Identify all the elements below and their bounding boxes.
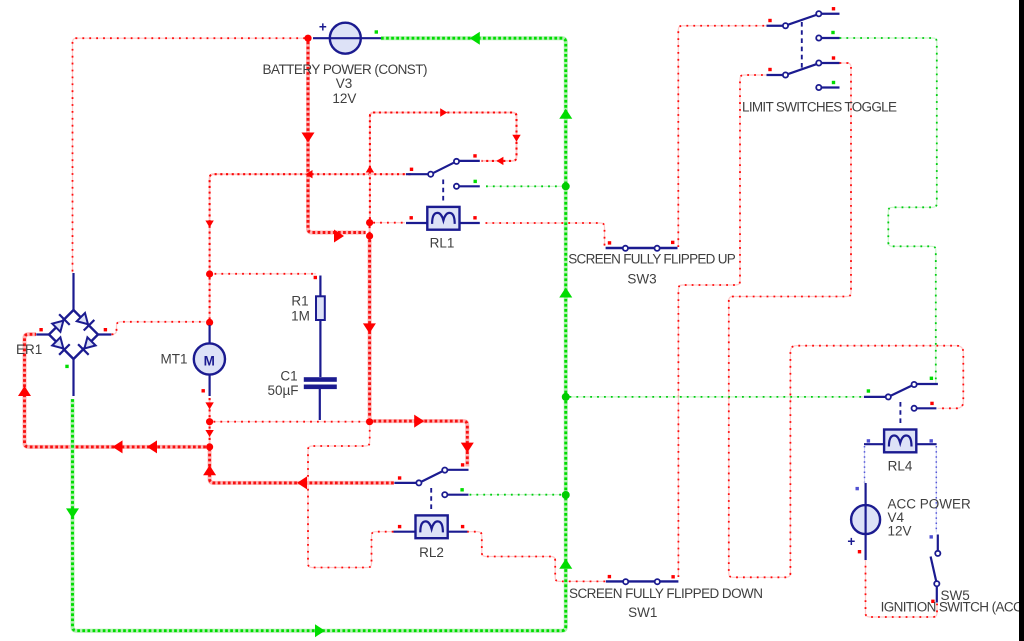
svg-text:1M: 1M [291, 308, 310, 323]
flow arrow to bridge up [18, 386, 31, 396]
pin marker SW5 top [930, 535, 933, 538]
flow arrow node B right [414, 415, 424, 428]
switch of RL4 [864, 382, 938, 427]
wire RL2 coil right to SW1 left [467, 532, 606, 582]
pin marker RL4 throw1 [930, 377, 933, 380]
relay RL2 [394, 515, 468, 538]
flow arrow pole return left [297, 476, 307, 489]
relay RL4 [864, 430, 937, 453]
svg-text:M: M [204, 354, 215, 369]
limit switch 2 (lower) [767, 60, 840, 90]
pin marker RL2 throw1 [461, 463, 464, 466]
svg-text:50µF: 50µF [267, 383, 298, 398]
node ground node 2 [562, 393, 570, 401]
flow arrow green up 1 [559, 109, 572, 119]
pin marker RL4 coil right [930, 439, 933, 442]
flow arrow battery feed down [302, 133, 315, 143]
flow arrow green bridge down [66, 508, 79, 518]
wire battery V3 minus ground loop [73, 38, 566, 631]
switch of RL1 [406, 159, 480, 204]
flow arrow green up 3 [559, 559, 572, 569]
wire RL2 lower throw to ground [470, 494, 563, 496]
flow arrow green up 2 [559, 288, 572, 298]
wire RL2 coil left loop to node B [308, 425, 394, 567]
pin marker RL4 throw2 [930, 402, 933, 405]
svg-text:12V: 12V [888, 524, 912, 539]
pin marker RL1 coil left [410, 216, 413, 219]
node node A2 [366, 232, 373, 239]
wire RL4 coil left to V4 plus [864, 446, 866, 483]
flow arrow green to battery left [470, 32, 480, 45]
flow arrow node A2 down [363, 323, 376, 333]
node R1 branch node [206, 270, 213, 277]
limit switch 1 (upper) [767, 11, 840, 40]
flow arrow top loop right [440, 108, 447, 116]
pin marker SW1 left [608, 575, 611, 578]
pin marker LS2 pole [768, 68, 771, 71]
svg-text:R1: R1 [291, 294, 308, 309]
svg-text:SW1: SW1 [628, 605, 657, 620]
switch SW5 (open) [931, 535, 941, 603]
flow arrow return up [203, 465, 216, 475]
pin marker R1 top [314, 276, 317, 279]
svg-text:C1: C1 [280, 369, 297, 384]
flow arrow motor feed left [306, 170, 313, 178]
pin marker LS1 pole [768, 19, 771, 22]
pin marker RL2 pole [398, 476, 401, 479]
motor MT1 [194, 325, 225, 396]
pin marker RL2 coil right [461, 525, 464, 528]
pin marker V4 bottom [858, 550, 861, 553]
pin marker RL1 coil right [473, 216, 476, 219]
node motor bottom node [206, 418, 213, 425]
pin marker V3 minus [375, 30, 378, 33]
svg-text:RL1: RL1 [430, 236, 455, 251]
wire motor bottom to return node [209, 398, 211, 444]
capacitor C1 [304, 377, 337, 420]
bridge rectifier ER1 [36, 273, 111, 396]
battery V4 ACC POWER [847, 483, 880, 560]
wire motor column mid [209, 278, 211, 320]
pin marker LS2 throw2 [832, 81, 835, 84]
flow arrow green bottom right [315, 624, 325, 637]
pin marker bridge bottom [65, 365, 68, 368]
wire node A to RL1 coil left [373, 222, 405, 224]
svg-text:SCREEN FULLY FLIPPED DOWN: SCREEN FULLY FLIPPED DOWN [569, 586, 763, 601]
node node A [366, 219, 373, 226]
pin marker LS1 throw2 [831, 31, 834, 34]
wire node A2 down to motor-bottom node [368, 240, 372, 419]
switch SW1 (closed) [606, 579, 679, 584]
pin marker LS1 throw1 [832, 7, 835, 10]
wire battery V3 feed down [308, 42, 366, 233]
resistor R1 [316, 276, 325, 378]
wire node B right to RL2 upper throw [373, 421, 467, 466]
wire RL4 coil right to SW5 top [935, 446, 937, 533]
svg-text:RL4: RL4 [888, 459, 913, 474]
pin marker bridge left [39, 328, 42, 331]
wire SW3 right up to limit switch 1 pole [678, 26, 766, 247]
wire return node to bridge left [25, 334, 206, 447]
flow arrow to RL2 throw down [461, 443, 474, 453]
pin marker SW5 bottom [931, 600, 934, 603]
pin marker SW1 right [671, 575, 674, 578]
wire SW1 right up to limit switch 2 pole [678, 75, 766, 577]
svg-text:12V: 12V [332, 91, 356, 106]
wire limit switch 2 throw to RL4 lower throw [729, 63, 964, 577]
svg-text:+: + [847, 534, 855, 549]
switch of RL2 [394, 468, 468, 513]
pin marker MT1 bottom [202, 389, 205, 392]
flow arrow top loop down [512, 135, 520, 142]
flow arrow top loop left [496, 157, 503, 165]
window border right [1019, 0, 1024, 641]
node ground node 1 [562, 182, 570, 190]
svg-text:SW3: SW3 [627, 272, 656, 287]
wire bridge right terminal to motor-top node [112, 322, 206, 335]
wire motor-bottom node to C1 bottom and node B [214, 421, 366, 423]
wire V4 minus to SW5 bottom [866, 561, 938, 618]
relay RL1 [406, 207, 480, 230]
pin marker RL1 throw1 [473, 154, 476, 157]
wire RL1 lower throw to ground [486, 185, 562, 187]
pin marker bridge right [104, 328, 107, 331]
gang link of limit switches [801, 22, 803, 70]
pin marker RL2 coil left [398, 525, 401, 528]
wire battery V3 plus to bridge top [73, 38, 306, 272]
svg-text:LIMIT SWITCHES TOGGLE: LIMIT SWITCHES TOGGLE [742, 99, 897, 114]
pin marker RL4 coil left [867, 439, 870, 442]
pin marker RL1 throw2 [474, 180, 477, 183]
flow arrow motor out down 1 [205, 402, 213, 409]
pin marker RL2 throw2 [460, 488, 463, 491]
node return node [206, 443, 213, 450]
wire RL2 pole return left and up [210, 450, 394, 483]
switch SW3 (closed) [606, 246, 678, 251]
pin marker RL1 pole [410, 168, 413, 171]
node node B [366, 418, 373, 425]
flow arrow node A up [366, 166, 374, 173]
svg-text:+: + [319, 20, 327, 35]
wire RL1 pole to motor top [210, 174, 411, 270]
wire motor-top node to R1 top [215, 273, 317, 275]
pin marker SW3 right [671, 241, 674, 244]
wire RL1 coil right to SW3 left [486, 223, 605, 246]
pin marker SW3 left [608, 241, 611, 244]
node ground node 3 [562, 491, 570, 499]
svg-text:ER1: ER1 [16, 342, 42, 357]
wire limit switch 1 lower throw to RL4 upper throw [840, 38, 937, 383]
svg-text:V3: V3 [336, 76, 353, 91]
flow arrow feed right [334, 230, 344, 243]
wire node A up over to RL1 upper throw [370, 113, 517, 220]
pin marker LS2 throw1 [832, 56, 835, 59]
node motor top node [206, 319, 213, 326]
flow arrow return left 2 [113, 440, 123, 453]
flow arrow return left 1 [147, 440, 157, 453]
svg-text:SCREEN FULLY FLIPPED UP: SCREEN FULLY FLIPPED UP [568, 251, 736, 266]
svg-text:MT1: MT1 [161, 352, 188, 367]
flow arrow motor out down 2 [205, 430, 213, 437]
battery V3 [313, 20, 381, 54]
svg-text:IGNITION SWITCH (ACC): IGNITION SWITCH (ACC) [881, 599, 1024, 614]
wire ground to RL4 pole [570, 396, 864, 398]
pin marker RL4 pole [867, 389, 870, 392]
wire link node A to node A2 [369, 226, 371, 233]
flow arrow motor feed down [205, 221, 213, 228]
node battery plus junction [304, 35, 311, 42]
pin marker V4 top [856, 487, 859, 490]
svg-text:RL2: RL2 [419, 545, 444, 560]
